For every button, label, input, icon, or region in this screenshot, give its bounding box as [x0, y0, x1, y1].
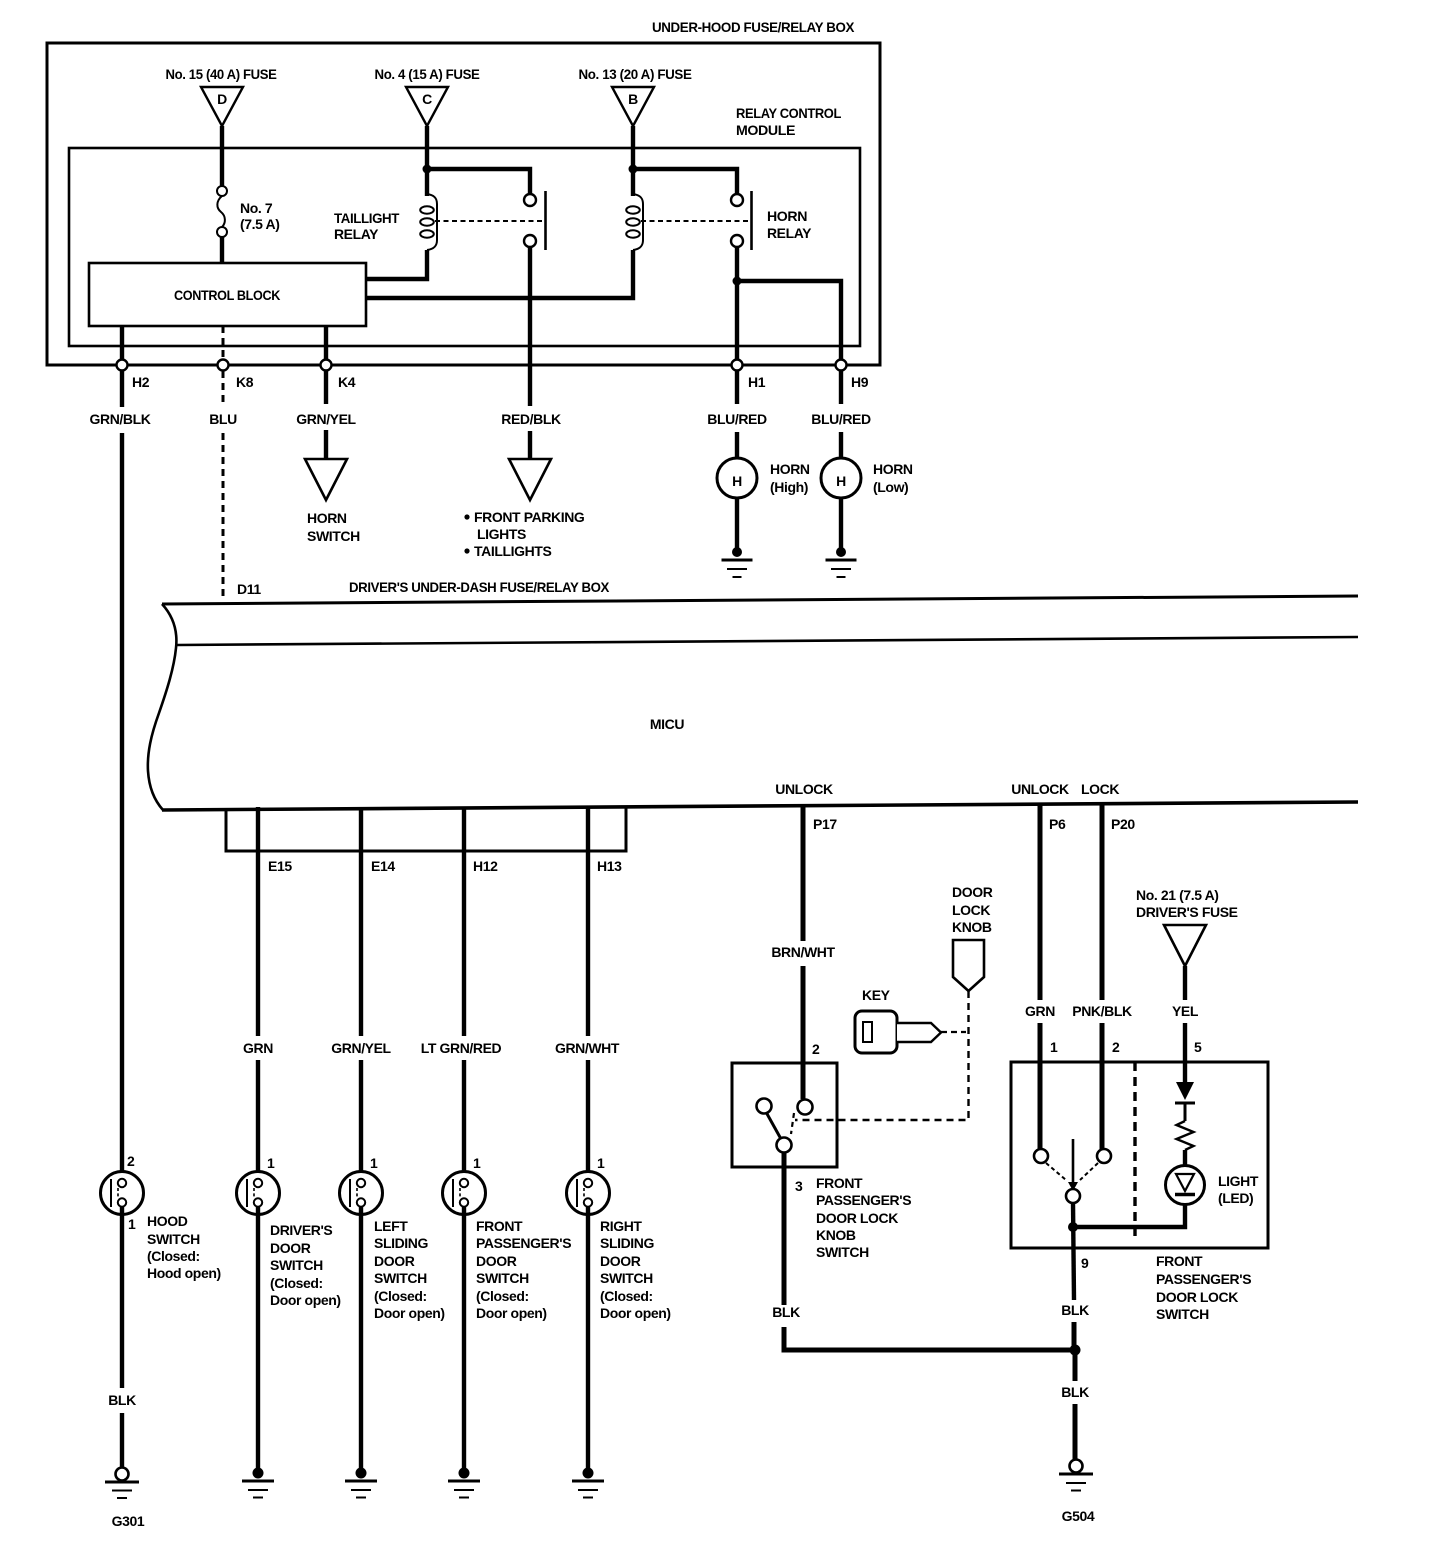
svg-text:No. 15 (40 A) FUSE: No. 15 (40 A) FUSE	[166, 66, 277, 82]
svg-text:D: D	[217, 91, 227, 107]
svg-text:TAILLIGHT: TAILLIGHT	[334, 210, 400, 226]
svg-text:H: H	[732, 473, 742, 489]
svg-text:DRIVER'S: DRIVER'S	[270, 1222, 332, 1238]
svg-text:FRONT: FRONT	[1156, 1253, 1203, 1269]
svg-text:CONTROL BLOCK: CONTROL BLOCK	[174, 287, 280, 303]
svg-text:HORN: HORN	[770, 461, 810, 477]
svg-text:H2: H2	[132, 374, 150, 390]
svg-text:KNOB: KNOB	[816, 1227, 856, 1243]
svg-text:1: 1	[1050, 1039, 1058, 1055]
svg-text:TAILLIGHTS: TAILLIGHTS	[474, 543, 551, 559]
svg-text:(7.5 A): (7.5 A)	[240, 216, 279, 232]
svg-text:MODULE: MODULE	[736, 122, 795, 138]
svg-text:UNDER-HOOD FUSE/RELAY BOX: UNDER-HOOD FUSE/RELAY BOX	[652, 19, 855, 35]
svg-text:1: 1	[370, 1155, 378, 1171]
svg-text:DOOR LOCK: DOOR LOCK	[816, 1210, 898, 1226]
svg-text:BLK: BLK	[772, 1304, 800, 1320]
svg-text:LEFT: LEFT	[374, 1218, 408, 1234]
svg-text:2: 2	[1112, 1039, 1120, 1055]
svg-text:FRONT: FRONT	[816, 1175, 863, 1191]
svg-text:H: H	[836, 473, 846, 489]
svg-text:Hood open): Hood open)	[147, 1265, 221, 1281]
svg-text:GRN/BLK: GRN/BLK	[90, 411, 151, 427]
svg-text:No. 13 (20 A) FUSE: No. 13 (20 A) FUSE	[579, 66, 692, 82]
svg-text:H9: H9	[851, 374, 869, 390]
svg-text:RIGHT: RIGHT	[600, 1218, 642, 1234]
svg-text:K8: K8	[236, 374, 254, 390]
svg-text:G504: G504	[1062, 1508, 1095, 1524]
svg-text:MICU: MICU	[650, 716, 684, 732]
svg-text:PNK/BLK: PNK/BLK	[1072, 1003, 1132, 1019]
svg-text:SLIDING: SLIDING	[374, 1235, 428, 1251]
svg-text:GRN: GRN	[1025, 1003, 1055, 1019]
svg-text:RED/BLK: RED/BLK	[501, 411, 561, 427]
svg-text:2: 2	[812, 1041, 820, 1057]
svg-text:No. 4 (15 A) FUSE: No. 4 (15 A) FUSE	[375, 66, 480, 82]
svg-text:P17: P17	[813, 816, 837, 832]
svg-text:Door open): Door open)	[374, 1305, 445, 1321]
svg-text:HORN: HORN	[873, 461, 913, 477]
svg-text:FRONT: FRONT	[476, 1218, 523, 1234]
svg-text:SWITCH: SWITCH	[816, 1244, 869, 1260]
svg-text:GRN/YEL: GRN/YEL	[331, 1040, 391, 1056]
svg-text:No. 21 (7.5 A): No. 21 (7.5 A)	[1136, 887, 1219, 903]
svg-text:H13: H13	[597, 858, 622, 874]
svg-text:P20: P20	[1111, 816, 1135, 832]
svg-text:HORN: HORN	[307, 510, 347, 526]
svg-text:FRONT PARKING: FRONT PARKING	[474, 509, 585, 525]
svg-text:SWITCH: SWITCH	[600, 1270, 653, 1286]
svg-text:1: 1	[267, 1155, 275, 1171]
svg-text:BRN/WHT: BRN/WHT	[771, 944, 835, 960]
svg-text:BLK: BLK	[1061, 1302, 1089, 1318]
svg-text:(High): (High)	[770, 479, 808, 495]
svg-text:RELAY: RELAY	[767, 225, 812, 241]
svg-text:(Closed:: (Closed:	[600, 1288, 653, 1304]
svg-text:BLK: BLK	[1061, 1384, 1089, 1400]
svg-text:B: B	[628, 91, 638, 107]
svg-text:Door open): Door open)	[270, 1292, 341, 1308]
svg-text:SLIDING: SLIDING	[600, 1235, 654, 1251]
svg-text:(Closed:: (Closed:	[147, 1248, 200, 1264]
svg-text:RELAY: RELAY	[334, 226, 379, 242]
svg-text:E15: E15	[268, 858, 292, 874]
svg-text:RELAY CONTROL: RELAY CONTROL	[736, 105, 842, 121]
svg-text:UNLOCK: UNLOCK	[775, 781, 833, 797]
svg-text:BLU: BLU	[209, 411, 237, 427]
svg-text:5: 5	[1194, 1039, 1202, 1055]
svg-text:DRIVER'S UNDER-DASH FUSE/RELAY: DRIVER'S UNDER-DASH FUSE/RELAY BOX	[349, 579, 610, 595]
svg-text:H1: H1	[748, 374, 766, 390]
svg-text:UNLOCK: UNLOCK	[1011, 781, 1069, 797]
svg-text:SWITCH: SWITCH	[476, 1270, 529, 1286]
svg-text:No. 7: No. 7	[240, 200, 273, 216]
svg-text:DOOR: DOOR	[952, 884, 993, 900]
svg-text:GRN: GRN	[243, 1040, 273, 1056]
svg-text:DOOR: DOOR	[476, 1253, 517, 1269]
svg-text:SWITCH: SWITCH	[307, 528, 360, 544]
svg-text:(Closed:: (Closed:	[270, 1275, 323, 1291]
svg-text:DRIVER'S FUSE: DRIVER'S FUSE	[1136, 904, 1238, 920]
svg-text:BLK: BLK	[108, 1392, 136, 1408]
svg-text:3: 3	[795, 1178, 803, 1194]
svg-text:LOCK: LOCK	[952, 902, 990, 918]
svg-text:YEL: YEL	[1172, 1003, 1199, 1019]
svg-text:D11: D11	[237, 581, 261, 597]
svg-text:DOOR LOCK: DOOR LOCK	[1156, 1289, 1238, 1305]
svg-text:1: 1	[597, 1155, 605, 1171]
svg-text:KNOB: KNOB	[952, 919, 992, 935]
svg-text:LIGHT: LIGHT	[1218, 1173, 1259, 1189]
svg-text:C: C	[422, 91, 432, 107]
svg-text:DOOR: DOOR	[270, 1240, 311, 1256]
svg-text:(Closed:: (Closed:	[476, 1288, 529, 1304]
svg-text:1: 1	[473, 1155, 481, 1171]
svg-text:SWITCH: SWITCH	[147, 1231, 200, 1247]
svg-text:(Closed:: (Closed:	[374, 1288, 427, 1304]
svg-text:Door open): Door open)	[600, 1305, 671, 1321]
svg-text:SWITCH: SWITCH	[374, 1270, 427, 1286]
svg-text:LIGHTS: LIGHTS	[477, 526, 526, 542]
svg-text:(Low): (Low)	[873, 479, 908, 495]
svg-text:1: 1	[128, 1216, 136, 1232]
svg-text:G301: G301	[112, 1513, 145, 1529]
svg-text:SWITCH: SWITCH	[270, 1257, 323, 1273]
svg-text:Door open): Door open)	[476, 1305, 547, 1321]
svg-text:E14: E14	[371, 858, 395, 874]
svg-text:HOOD: HOOD	[147, 1213, 188, 1229]
svg-text:LT GRN/RED: LT GRN/RED	[421, 1040, 502, 1056]
svg-text:2: 2	[127, 1153, 135, 1169]
svg-text:BLU/RED: BLU/RED	[707, 411, 767, 427]
svg-text:LOCK: LOCK	[1081, 781, 1119, 797]
svg-text:PASSENGER'S: PASSENGER'S	[476, 1235, 571, 1251]
svg-text:GRN/WHT: GRN/WHT	[555, 1040, 620, 1056]
svg-text:KEY: KEY	[862, 987, 891, 1003]
svg-text:PASSENGER'S: PASSENGER'S	[816, 1192, 911, 1208]
svg-text:DOOR: DOOR	[600, 1253, 641, 1269]
svg-text:SWITCH: SWITCH	[1156, 1306, 1209, 1322]
svg-text:9: 9	[1081, 1255, 1089, 1271]
svg-text:PASSENGER'S: PASSENGER'S	[1156, 1271, 1251, 1287]
svg-text:H12: H12	[473, 858, 498, 874]
svg-text:P6: P6	[1049, 816, 1066, 832]
svg-text:GRN/YEL: GRN/YEL	[296, 411, 356, 427]
svg-text:K4: K4	[338, 374, 356, 390]
svg-text:BLU/RED: BLU/RED	[811, 411, 871, 427]
svg-text:HORN: HORN	[767, 208, 807, 224]
svg-text:(LED): (LED)	[1218, 1190, 1253, 1206]
svg-text:DOOR: DOOR	[374, 1253, 415, 1269]
